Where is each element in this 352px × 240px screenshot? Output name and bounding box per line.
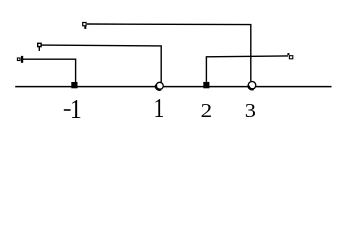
arrow marker B (left end of ray B): [38, 43, 41, 51]
node -1: closed point (filled square): [71, 82, 77, 88]
svg-text:1: 1: [154, 94, 165, 124]
svg-text:1: 1: [70, 93, 82, 124]
wire: ray C horizontal (for point -1): [23, 59, 76, 82]
wire: ray A horizontal (for point 3): [87, 24, 251, 81]
wire: ray B horizontal (for point 1): [41, 45, 161, 82]
wire: ray D horizontal (for point 2): [206, 56, 288, 82]
arrow marker D (right end of ray D): [287, 53, 292, 59]
svg-text:3: 3: [245, 99, 256, 122]
arrow marker A (left end of ray A): [83, 23, 87, 29]
svg-text:2: 2: [201, 99, 213, 121]
label -1 : minus sign: [64, 109, 71, 111]
arrow marker C (left end of ray C): [17, 56, 23, 63]
node 3: open point (hollow circle): [248, 82, 256, 90]
number line diagram: [0, 0, 352, 143]
wire: number line axis: [15, 86, 331, 88]
node 1: open point (hollow circle): [156, 82, 163, 89]
node 2: closed point (filled square): [203, 82, 209, 88]
